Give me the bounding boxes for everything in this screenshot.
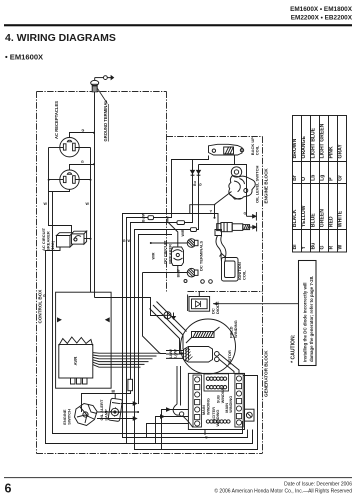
wire receptacle2 left slot <box>49 179 64 181</box>
inline connector <box>148 216 154 220</box>
wire ground bus <box>94 92 96 298</box>
connector pair on vertical <box>191 170 195 173</box>
svg-text:6: 6 <box>5 482 12 496</box>
wire diagonal d1 <box>153 305 183 350</box>
svg-text:Bu: Bu <box>310 243 316 250</box>
stator right terminal strip <box>235 374 243 427</box>
svg-text:COIL: COIL <box>242 270 247 280</box>
wire box to frame ground <box>95 298 164 316</box>
svg-text:Bu/W: Bu/W <box>142 212 146 222</box>
svg-text:CONTROL BOX: CONTROL BOX <box>38 289 43 324</box>
header model codes <box>290 6 353 22</box>
svg-text:GRAY: GRAY <box>337 144 343 159</box>
ac receptacle 2 <box>60 170 79 189</box>
svg-text:LIGHT GREEN: LIGHT GREEN <box>319 123 325 158</box>
wire dc diode left stub <box>187 295 189 312</box>
wire dc breaker input diagonal <box>168 217 178 248</box>
svg-text:WINDING: WINDING <box>216 410 220 427</box>
svg-text:G: G <box>205 436 208 440</box>
svg-text:BREAKER: BREAKER <box>167 244 172 264</box>
svg-text:W/R: W/R <box>181 229 185 236</box>
wire white neutral to bottom bus <box>49 189 243 433</box>
svg-text:ORANGE: ORANGE <box>301 136 307 159</box>
wires stator left outputs <box>162 410 189 450</box>
ignition coil bottom terminals <box>184 280 212 284</box>
svg-text:Gr: Gr <box>337 175 343 181</box>
svg-text:WINDING: WINDING <box>233 320 238 338</box>
dc circuit breaker <box>172 247 184 266</box>
svg-text:LIGHT BLUE: LIGHT BLUE <box>310 127 316 158</box>
svg-text:PINK: PINK <box>328 146 334 158</box>
wire service loop <box>173 366 180 415</box>
wire terminal 1 west <box>151 242 188 244</box>
generator block top edge <box>188 291 263 293</box>
generator rotor circle <box>181 319 236 374</box>
wire exciter long run <box>135 165 258 450</box>
svg-text:Lg: Lg <box>319 175 325 181</box>
wire w4 run <box>139 235 173 405</box>
svg-text:Bu: Bu <box>193 181 197 186</box>
svg-text:damage the generator; refer to: damage the generator; refer to page 7-28… <box>309 276 314 362</box>
svg-text:AC RECEPTACLES: AC RECEPTACLES <box>54 101 59 139</box>
wire backup coil white branch <box>127 156 253 444</box>
engine block right edge <box>262 137 264 454</box>
ac circuit breaker label <box>41 227 55 251</box>
stator winding labels <box>202 386 233 426</box>
dc diode label <box>211 301 221 314</box>
svg-text:Bl: Bl <box>112 389 116 393</box>
svg-text:BLACK: BLACK <box>292 209 298 227</box>
small wire color labels <box>43 128 208 439</box>
svg-text:Bl/W: Bl/W <box>177 269 181 278</box>
dc circuit breaker label <box>163 240 173 264</box>
svg-text:G: G <box>82 128 85 132</box>
svg-text:Lb/W: Lb/W <box>169 349 173 358</box>
svg-text:P: P <box>328 177 334 181</box>
wire slip ring 1 <box>219 354 239 374</box>
control box top edge <box>37 91 167 93</box>
field winding coil <box>186 327 220 343</box>
control box left edge <box>36 92 38 454</box>
stator ground lug <box>245 409 255 421</box>
inline connector mid band 2 <box>177 221 185 225</box>
back-up coil label <box>250 137 260 156</box>
wire dc breaker to terminal 2 <box>143 266 188 273</box>
svg-text:DC TERMINALS: DC TERMINALS <box>199 240 204 271</box>
svg-text:* CAUTION:: * CAUTION: <box>290 334 296 363</box>
wire backup coil ground branch <box>199 156 247 217</box>
spark plug <box>217 223 257 232</box>
dc terminal 1 <box>187 239 198 248</box>
svg-text:O: O <box>301 177 307 181</box>
svg-text:RED: RED <box>328 216 334 227</box>
engine ground arrow (coil G wire) <box>247 212 257 221</box>
svg-text:BROWN: BROWN <box>292 138 298 158</box>
ac circuit breaker <box>57 231 87 247</box>
footer rule <box>4 476 352 479</box>
dc diode leader arrow to caution <box>213 302 299 305</box>
wire brush inputs <box>166 351 184 359</box>
svg-text:DIODE: DIODE <box>215 301 220 314</box>
stator left terminal strip <box>193 375 202 427</box>
avr <box>59 337 93 384</box>
svg-text:W/R: W/R <box>152 252 156 259</box>
oil level switch <box>229 167 255 199</box>
wire stator ground <box>204 430 206 434</box>
header thick rule <box>4 24 352 26</box>
wire receptacle right slots bus <box>75 148 90 293</box>
svg-text:W: W <box>86 202 90 206</box>
svg-text:BLUE: BLUE <box>310 213 316 227</box>
ground symbol at top <box>95 76 114 81</box>
avr wire fan <box>93 353 161 368</box>
svg-text:WINDING: WINDING <box>206 398 210 415</box>
main winding coil box <box>204 374 229 391</box>
wire left slot bus to breaker <box>49 148 72 234</box>
engine switch label <box>62 409 72 425</box>
wire receptacle2 ground <box>70 165 95 171</box>
svg-text:WHITE: WHITE <box>337 210 343 227</box>
dc terminal 2 <box>187 268 198 277</box>
engine switch <box>75 404 98 426</box>
svg-text:Bl: Bl <box>292 244 298 250</box>
oil alert lamp <box>108 398 122 421</box>
ground terminal label <box>98 89 109 142</box>
svg-text:YELLOW: YELLOW <box>301 205 307 227</box>
bottom edge <box>37 453 263 455</box>
svg-text:R: R <box>328 246 334 250</box>
wire receptacle1 ground <box>70 133 95 138</box>
brush block <box>184 347 220 363</box>
wire diagonal d3 <box>157 302 187 332</box>
svg-text:• EM1600X: • EM1600X <box>5 53 43 62</box>
svg-text:G: G <box>319 246 325 250</box>
svg-text:W: W <box>44 202 48 206</box>
wire oil level switch out <box>215 192 232 218</box>
wire diagonal d2 <box>150 309 184 354</box>
inline connector mid band 3 <box>191 228 197 232</box>
wire lamp branch <box>82 160 193 413</box>
wire yellow ignition to bus <box>123 214 248 438</box>
control panel sub-box <box>190 205 216 214</box>
svg-text:COIL: COIL <box>254 145 259 155</box>
svg-text:© 2006 American Honda Motor Co: © 2006 American Honda Motor Co., Inc.—Al… <box>214 488 352 495</box>
wire dc diode top stub <box>198 292 200 297</box>
svg-text:WINDING: WINDING <box>229 396 233 413</box>
field winding label <box>229 320 239 338</box>
wire slip ring 2 <box>219 359 234 373</box>
svg-text:GREEN: GREEN <box>319 209 325 227</box>
footer issue lines <box>214 482 352 495</box>
svg-text:EM1600X • EM1800X: EM1600X • EM1800X <box>290 6 353 13</box>
ground terminal bolt <box>91 80 99 91</box>
svg-text:Installing the DC diode incorr: Installing the DC diode incorrectly will <box>303 282 308 362</box>
svg-text:WINDING: WINDING <box>221 386 225 403</box>
ignition coil label <box>237 262 247 280</box>
svg-text:EM2200X • EB2200X: EM2200X • EB2200X <box>291 15 353 22</box>
ignition coil <box>215 230 238 282</box>
inline connector <box>128 379 133 390</box>
wire color legend table <box>292 115 347 252</box>
wire engine switch <box>97 411 139 413</box>
caution note box <box>299 261 317 366</box>
svg-text:ENGINE BLOCK: ENGINE BLOCK <box>264 168 269 204</box>
oil alert lamp label <box>99 399 109 420</box>
stator box <box>188 373 244 429</box>
svg-text:Br: Br <box>292 175 298 181</box>
svg-text:Date of Issue: December 2006: Date of Issue: December 2006 <box>284 482 352 488</box>
svg-text:G: G <box>43 294 46 298</box>
svg-text:W: W <box>128 239 132 243</box>
wire arrow stub 2 <box>97 418 133 420</box>
frame ground symbol <box>164 312 175 319</box>
dc diode <box>189 297 210 312</box>
ac receptacle 1 <box>60 138 79 157</box>
back-up coil <box>209 144 244 155</box>
svg-text:Y: Y <box>301 246 307 250</box>
engine block top edge <box>167 136 263 138</box>
avr connector box <box>56 292 112 388</box>
svg-text:AVR: AVR <box>73 356 78 366</box>
wire receptacle1 left slot <box>49 147 64 149</box>
svg-text:GENERATOR BLOCK: GENERATOR BLOCK <box>264 350 269 397</box>
svg-text:G: G <box>199 183 203 186</box>
svg-text:Lb: Lb <box>310 175 316 181</box>
control box right edge <box>166 92 168 292</box>
svg-text:OIL LEVEL SWITCH: OIL LEVEL SWITCH <box>254 165 259 203</box>
wire arrow stub 1 <box>121 403 133 405</box>
svg-text:G: G <box>81 160 84 164</box>
stator coil chains <box>206 377 230 423</box>
connector pair on vertical <box>197 170 201 173</box>
svg-text:SWITCH: SWITCH <box>67 409 72 425</box>
svg-text:Lg/W: Lg/W <box>174 349 178 358</box>
wire breaker to bottom bus <box>46 247 253 444</box>
svg-text:Y: Y <box>210 208 213 213</box>
wire dc output long <box>143 273 167 354</box>
wire breaker output <box>84 238 91 240</box>
svg-text:W: W <box>337 245 343 250</box>
svg-text:G: G <box>123 239 126 243</box>
svg-text:4. WIRING DIAGRAMS: 4. WIRING DIAGRAMS <box>5 32 116 44</box>
svg-text:GROUND TERMINAL: GROUND TERMINAL <box>103 100 108 142</box>
block boundary chain lines <box>37 92 263 454</box>
